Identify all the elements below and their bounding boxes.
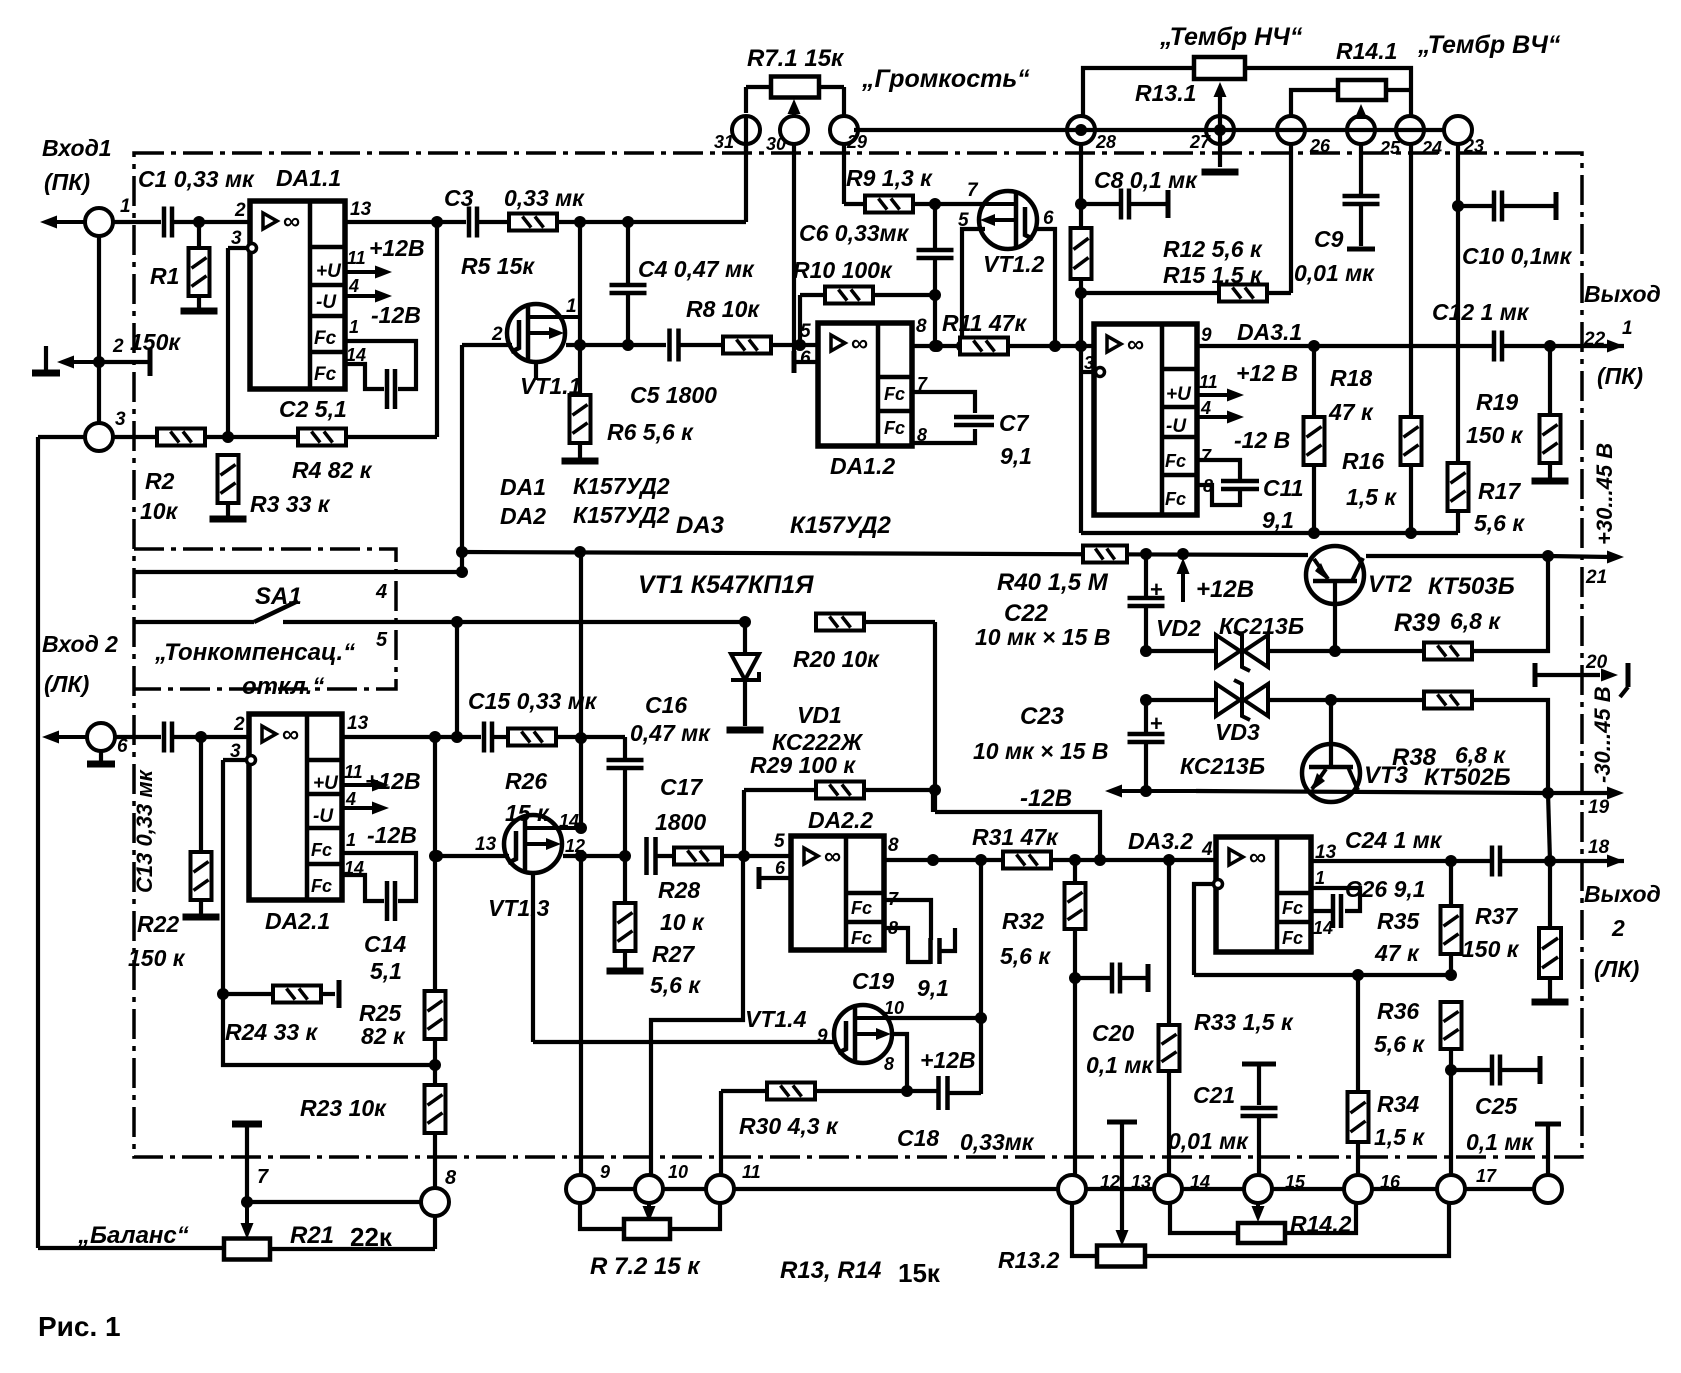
wire C4 bottom [626,293,630,345]
resistor R28 [674,848,722,865]
ground R22 [183,914,220,921]
wire R13.1 left [1083,68,1194,116]
ground pin 2 [44,346,48,370]
svg-text:29: 29 [846,132,867,152]
node [1075,198,1087,210]
resistor R36 [1441,1002,1462,1049]
capacitor C20 [1075,976,1111,980]
resistor R30 [767,1083,815,1100]
capacitor C24 [1490,846,1495,877]
transistor VT1.4 [834,1005,892,1063]
svg-text:10: 10 [884,998,904,1018]
potentiometer R13.2 [1097,1246,1145,1267]
wire [556,735,625,739]
wire [1359,204,1363,246]
node [1544,340,1556,352]
svg-text:R32: R32 [1002,908,1044,934]
wire Fc lower DA2.2 [884,928,931,962]
svg-text:+12 В: +12 В [1236,360,1298,386]
capacitor C19 [928,938,933,964]
svg-text:Вход 2: Вход 2 [42,631,118,657]
svg-text:+U: +U [313,773,339,794]
wire VT1.1 drain column [578,222,582,317]
wire R18 [1312,346,1316,417]
wire R24 row [223,992,273,996]
connector 9 [566,1175,594,1203]
node [217,988,229,1000]
wire [935,812,1100,860]
wire [1268,649,1424,653]
node [901,1085,913,1097]
node [574,339,586,351]
wire [1267,291,1291,295]
svg-text:9: 9 [600,1162,610,1182]
wire DA3.1 loop left [1079,346,1083,533]
wire 7 to 8 [247,1200,421,1204]
wire C6 bottom [933,258,937,346]
node [1140,548,1152,560]
svg-text:0,47 мк: 0,47 мк [630,720,711,746]
node [1049,340,1061,352]
svg-text:R22: R22 [137,911,179,937]
wire 19 to 18 [1548,793,1550,861]
resistor R33 [1159,1025,1180,1071]
svg-text:R23 10к: R23 10к [300,1095,387,1121]
wire [1409,465,1413,533]
svg-text:25: 25 [1379,138,1401,158]
svg-text:R13.2: R13.2 [998,1247,1060,1273]
pin 18 arrow [1607,855,1624,868]
output row DA2.2 [884,858,1003,862]
svg-text:8: 8 [1203,476,1213,496]
node [622,216,634,228]
node [739,616,751,628]
op-amp DA2.2 [791,836,884,950]
capacitor C8 [1081,202,1121,206]
wire [1548,978,1552,999]
wire [197,222,201,248]
svg-text:VT2: VT2 [1368,571,1413,598]
wire [321,992,335,996]
svg-text:6: 6 [800,348,811,369]
svg-text:VT3: VT3 [1364,762,1409,789]
+U arrow DA3.1 [1197,393,1232,397]
wire [1268,698,1424,702]
wire [1548,463,1552,478]
svg-text:C6 0,33мк: C6 0,33мк [799,220,910,246]
capacitor C10 [1458,204,1494,208]
pin 3 terminal [248,244,257,253]
wire VT1.3 gate [437,854,509,858]
svg-text:„Тембр ВЧ“: „Тембр ВЧ“ [1417,31,1561,59]
resistor R25 [425,991,446,1039]
svg-text:150 к: 150 к [128,945,186,971]
svg-text:47 к: 47 к [1374,940,1420,966]
svg-text:9,1: 9,1 [917,975,949,1001]
pin 3 DA3.1 [1096,368,1105,377]
svg-text:R9 1,3 к: R9 1,3 к [846,165,933,191]
capacitor C17 [644,837,649,875]
svg-text:VD2: VD2 [1156,615,1201,641]
svg-text:30: 30 [766,134,786,154]
svg-text:Рис. 1: Рис. 1 [38,1311,121,1342]
svg-text:+12В: +12В [920,1047,976,1073]
op-amp DA3.1 [1094,324,1197,515]
ground c6 [99,751,103,761]
svg-text:-12В: -12В [1020,785,1072,812]
svg-text:18: 18 [1588,837,1610,858]
output row DA2.1 [342,735,481,739]
svg-text:14: 14 [344,858,364,878]
connector 3 [85,423,113,451]
wire to DA1.2 pin6 [794,360,818,364]
wire riser x981 [979,860,983,1094]
svg-text:VT1.3: VT1.3 [488,895,550,921]
svg-text:6,8 к: 6,8 к [1450,608,1501,634]
resistor R37 wire [1548,861,1552,928]
svg-text:R4 82 к: R4 82 к [292,457,373,483]
wire R27 col [623,856,627,903]
svg-text:1: 1 [349,317,359,337]
wire [1073,929,1077,978]
svg-text:6: 6 [117,736,128,757]
svg-text:(ЛК): (ЛК) [44,671,89,697]
svg-text:28: 28 [1095,132,1116,152]
node [1352,969,1364,981]
wiper R13.2 [1107,1120,1137,1125]
svg-text:R24 33 к: R24 33 к [225,1019,319,1045]
svg-text:0,01 мк: 0,01 мк [1294,260,1375,286]
svg-text:4: 4 [1201,839,1213,860]
svg-text:R28: R28 [658,877,700,903]
wire [578,317,582,345]
svg-text:R3 33 к: R3 33 к [250,491,331,517]
wire pot right [819,85,844,89]
ground R37 [1532,999,1569,1006]
wire VT1.4 source [891,1034,907,1091]
wire [1167,1071,1171,1175]
svg-text:DA1: DA1 [500,474,546,500]
svg-text:DA2.1: DA2.1 [265,908,330,934]
capacitor C9 [1343,194,1380,199]
wire R14.2 left [1170,1203,1238,1233]
transistor VT1.1 [507,304,565,362]
svg-text:+12В: +12В [369,235,425,261]
capacitor C15 [482,722,487,753]
svg-text:Выход: Выход [1584,881,1661,907]
svg-text:4: 4 [1200,398,1211,418]
-12V rail [1117,789,1196,793]
transistor VT3 [1302,744,1360,802]
wire [814,1089,938,1093]
svg-text:C1 0,33 мк: C1 0,33 мк [138,166,255,192]
svg-text:VD3: VD3 [1215,719,1260,745]
node [429,850,441,862]
bottom row wire [734,1187,1058,1191]
potentiometer R7.2 [624,1219,670,1239]
svg-text:9: 9 [817,1026,828,1047]
capacitor C3 [467,207,472,238]
wire c9 to pot [580,1203,624,1229]
switch SA1 lever [134,620,254,624]
wire c25 down [1359,144,1363,196]
node [1094,854,1106,866]
svg-text:C4 0,47 мк: C4 0,47 мк [638,256,755,282]
svg-text:C25: C25 [1475,1093,1518,1119]
svg-text:1: 1 [1622,318,1633,339]
wire Fc lower DA1.2 [912,429,975,443]
svg-text:-U: -U [316,292,337,313]
svg-text:Fc: Fc [884,384,905,404]
connector 27 [1206,116,1234,144]
ground R27 [607,968,644,975]
node [429,1059,441,1071]
wire VT1.1 stub down [534,362,538,380]
resistor R2 [157,429,205,446]
wire C16 col [623,737,627,760]
potentiometer R7.1 [771,77,819,98]
wiper R13.1 [1214,82,1227,97]
svg-text:10: 10 [668,1162,688,1182]
node [975,1012,987,1024]
svg-text:R10 100к: R10 100к [793,257,893,283]
wire R10 riser [798,295,802,345]
svg-text:R11 47к: R11 47к [942,310,1027,336]
connector 25 [1347,116,1375,144]
resistor R37 [1539,928,1561,978]
output row DA3.1 [1197,344,1494,348]
node [1452,200,1464,212]
svg-text:5: 5 [376,629,388,651]
node [929,198,941,210]
wire [578,443,582,458]
pin 13 output wire [345,220,466,224]
svg-text:„Тонкомпенсац.“: „Тонкомпенсац.“ [154,639,355,666]
svg-text:„Громкость“: „Громкость“ [861,65,1030,93]
potentiometer R13.1 [1194,57,1245,79]
svg-text:C12 1 мк: C12 1 мк [1432,299,1530,325]
capacitor C1 [162,207,167,238]
svg-text:VT1.2: VT1.2 [983,251,1045,277]
rail to pin 21 [1366,554,1548,558]
connector 24 [1396,116,1424,144]
svg-text:Fc: Fc [1165,489,1186,509]
svg-text:∞: ∞ [1127,331,1144,358]
svg-text:Fc: Fc [884,418,905,438]
svg-text:R27: R27 [652,941,695,967]
node [1075,340,1087,352]
svg-text:(ЛК): (ЛК) [1594,956,1639,982]
wire [623,951,627,968]
resistor R15 [1219,285,1267,302]
svg-text:R16: R16 [1342,448,1384,474]
pin 19 arrow [1607,787,1624,800]
node [929,340,941,352]
zener VD3 [1216,684,1240,716]
wire [1472,700,1548,793]
svg-text:DA3.2: DA3.2 [1128,828,1193,854]
svg-text:R14.1: R14.1 [1336,38,1397,64]
node [1075,124,1087,136]
node [1308,340,1320,352]
svg-text:-U: -U [1166,416,1187,437]
svg-text:8: 8 [445,1167,457,1189]
wire connector1 column [97,236,101,423]
svg-text:C17: C17 [660,774,703,800]
capacitor C12 [1492,331,1497,362]
svg-text:26: 26 [1309,136,1331,156]
resistor R4 [298,429,346,446]
wire c9 col [579,856,583,1175]
resistor R33 wire [1167,860,1171,1025]
svg-text:4: 4 [375,581,387,603]
svg-text:15к: 15к [898,1258,941,1288]
resistor R32 wire [1073,860,1077,883]
svg-text:82 к: 82 к [361,1023,406,1049]
svg-text:R13, R14: R13, R14 [780,1257,881,1284]
rail +12V [462,552,1308,555]
wiper R7.1 [788,99,801,114]
wire [199,737,203,852]
wire [433,1133,437,1188]
svg-text:C18: C18 [897,1125,939,1151]
wire [205,435,298,439]
pin 21 arrow [1607,551,1624,564]
wire VT1.3 supply [579,552,583,738]
node R10 tap [794,339,806,351]
node [1140,645,1152,657]
svg-text:R18: R18 [1330,365,1372,391]
capacitor C2 [385,369,390,409]
node [574,216,586,228]
svg-text:0,1 мк: 0,1 мк [1466,1129,1534,1155]
svg-text:R7.1 15к: R7.1 15к [747,45,845,72]
svg-text:R40 1,5 М: R40 1,5 М [997,569,1109,596]
svg-text:+U: +U [316,261,342,282]
svg-text:9: 9 [1201,325,1212,346]
rail DA3.1 bottom [1081,531,1458,535]
resistor R40 [1083,546,1127,563]
svg-text:∞: ∞ [824,843,841,870]
transistor VT1.2 [979,191,1037,249]
wire [197,296,201,308]
node [456,546,468,558]
svg-text:(ПК): (ПК) [1597,363,1643,389]
resistor R23 [425,1085,446,1133]
-U supply arrow [345,294,380,298]
svg-text:R30 4,3 к: R30 4,3 к [739,1113,839,1139]
svg-text:C15 0,33 мк: C15 0,33 мк [468,688,598,714]
wire Fc upper DA3.2 [1311,888,1360,911]
wire [655,854,674,858]
VT3 base bar [1309,765,1353,770]
svg-text:∞: ∞ [282,721,299,748]
svg-text:R33 1,5 к: R33 1,5 к [1194,1009,1294,1035]
node [429,731,441,743]
capacitor C23 [1144,700,1148,734]
resistor R34 [1348,1092,1369,1142]
svg-text:31: 31 [714,132,734,152]
wire c12 to pot [1072,1203,1097,1256]
svg-text:7: 7 [967,180,979,201]
svg-text:VT1.4: VT1.4 [745,1006,807,1032]
svg-text:0,33мк: 0,33мк [960,1129,1035,1155]
svg-text:КС213Б: КС213Б [1219,613,1304,639]
node [575,732,587,744]
svg-text:R35: R35 [1377,908,1420,934]
connector 13 [1154,1175,1182,1203]
wire Fc upper DA2.1 [342,853,416,901]
svg-text:6: 6 [1043,208,1054,229]
arrow pin 2 [69,360,95,364]
wire [678,343,723,347]
wire VT1.3 source row [563,854,625,858]
svg-text:-12 В: -12 В [1234,427,1290,453]
svg-text:27: 27 [1189,132,1211,152]
node [1329,645,1341,657]
svg-text:R1: R1 [150,263,179,289]
wire VT1.4 gate line [533,1040,835,1044]
node [222,431,234,443]
resistor R35 wire [1449,861,1453,906]
wiper R14.2 [1256,1203,1260,1212]
svg-text:Fc: Fc [314,364,337,385]
wire R20 drop [933,622,937,812]
wire feedback vertical [435,222,439,437]
svg-text:8: 8 [916,316,927,337]
svg-text:5: 5 [774,831,785,852]
wire Fc upper DA3.1 [1197,460,1240,479]
pin 3 DA2.1 [247,756,256,765]
svg-text:11: 11 [1199,372,1218,392]
wire [113,220,161,224]
wire R14.2 right [1285,1203,1356,1233]
node [738,850,750,862]
node [451,731,463,743]
svg-text:10 мк × 15 В: 10 мк × 15 В [973,738,1108,764]
svg-text:20: 20 [1585,652,1608,673]
node [1214,124,1226,136]
svg-text:Fc: Fc [314,328,337,349]
resistor R29 [816,782,864,799]
svg-text:3: 3 [231,228,242,249]
svg-text:R 7.2 15 к: R 7.2 15 к [590,1253,701,1280]
svg-text:1,5 к: 1,5 к [1346,484,1397,510]
wire Fc lower DA3.1 [1197,485,1240,505]
wire [721,854,791,858]
wire [1502,344,1624,348]
output row DA3.2 [1311,859,1490,863]
svg-text:10 мк × 15 В: 10 мк × 15 В [975,624,1110,650]
connector 11 [706,1175,734,1203]
svg-text:R26: R26 [505,768,547,794]
svg-text:150к: 150к [130,329,181,355]
svg-text:DA3.1: DA3.1 [1237,319,1302,345]
svg-text:Fc: Fc [851,898,872,918]
svg-text:+12В: +12В [1196,576,1254,603]
svg-text:(ПК): (ПК) [44,169,90,195]
svg-text:КТ503Б: КТ503Б [1428,573,1515,600]
bottom row wire [594,1187,635,1191]
node [975,854,987,866]
svg-text:Выход: Выход [1584,281,1661,307]
svg-text:19: 19 [1588,797,1610,818]
wire VT1.2 top stub [915,202,985,206]
svg-text:+12В: +12В [365,768,421,794]
wire VT1.2 right lead [1034,229,1055,346]
transistor VT1.3 [504,815,562,873]
wire R29 riser [742,790,746,856]
